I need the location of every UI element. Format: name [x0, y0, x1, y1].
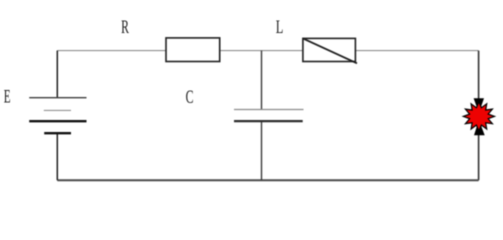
capacitor top lead: [261, 51, 263, 110]
wire battery top lead: [56, 51, 58, 98]
svg-text:R: R: [121, 17, 129, 38]
svg-text:C: C: [186, 87, 194, 108]
capacitor bottom lead: [261, 121, 263, 180]
battery E plate 3 long thick: [29, 120, 86, 122]
battery E plate 2 short thin: [44, 109, 71, 111]
resistor R box: [166, 38, 220, 62]
wire right vertical: [478, 51, 480, 181]
svg-text:L: L: [276, 17, 284, 38]
battery E plate 1 long thin: [29, 97, 86, 99]
capacitor bottom plate: [234, 120, 303, 122]
spark top triangle: [474, 98, 484, 113]
spark red starburst: [463, 102, 494, 131]
wire battery bottom lead: [56, 133, 58, 180]
inductor L diagonal: [303, 38, 357, 63]
wire top-left segment (battery to resistor): [57, 50, 166, 52]
wire bottom bus: [57, 179, 478, 181]
spark bottom triangle: [474, 120, 485, 135]
inductor L box: [303, 38, 356, 61]
battery E plate 4 short thick: [44, 132, 71, 134]
capacitor top plate: [234, 109, 304, 111]
svg-text:E: E: [4, 87, 11, 108]
wire top-right segment (inductor to right corner): [355, 50, 478, 52]
wire top-middle segment (resistor to inductor): [220, 50, 303, 52]
